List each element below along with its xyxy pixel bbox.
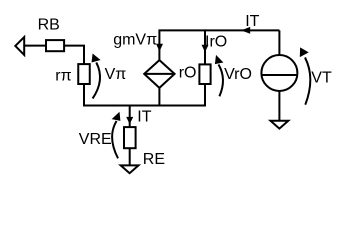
svg-text:VrO: VrO [224,66,252,83]
svg-text:VT: VT [311,70,332,87]
svg-text:IrO: IrO [205,34,227,51]
svg-text:RB: RB [38,16,60,33]
svg-text:RE: RE [143,151,165,168]
svg-text:VRE: VRE [79,131,112,148]
svg-text:rO: rO [179,65,197,82]
svg-text:Vπ: Vπ [105,66,127,83]
svg-text:IT: IT [245,13,259,30]
svg-text:IT: IT [137,108,151,125]
svg-text:rπ: rπ [55,67,71,84]
svg-text:gmVπ: gmVπ [113,31,157,48]
